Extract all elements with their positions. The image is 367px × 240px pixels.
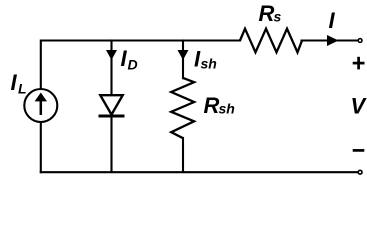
svg-text:sh: sh bbox=[219, 101, 235, 117]
wire diode branch upper bbox=[110, 41, 112, 96]
resistor R_sh zigzag bbox=[171, 78, 194, 138]
wire bottom rail bbox=[41, 171, 358, 173]
wire left rail lower bbox=[40, 122, 42, 172]
svg-text:R: R bbox=[259, 1, 275, 26]
diode D cathode bar bbox=[99, 115, 125, 118]
current source arrowhead bbox=[35, 93, 47, 102]
diode D triangle bbox=[100, 95, 122, 114]
current arrow I_sh bbox=[178, 50, 189, 60]
svg-text:I: I bbox=[329, 8, 336, 33]
wire left rail upper + top rail to R_s bbox=[41, 41, 240, 90]
resistor R_s zigzag bbox=[240, 29, 302, 53]
svg-text:sh: sh bbox=[201, 55, 217, 71]
svg-text:L: L bbox=[18, 81, 27, 97]
wire top-right to terminal bbox=[302, 39, 359, 41]
wire diode branch lower bbox=[110, 116, 112, 172]
svg-text:s: s bbox=[274, 9, 282, 25]
current arrow I_D bbox=[106, 50, 117, 60]
svg-text:R: R bbox=[204, 93, 220, 118]
terminal bottom-right bbox=[358, 170, 362, 174]
svg-text:I: I bbox=[121, 46, 128, 71]
plus sign bbox=[353, 57, 365, 70]
wire shunt branch upper bbox=[182, 41, 184, 79]
svg-text:V: V bbox=[351, 93, 367, 118]
terminal top-right bbox=[358, 39, 362, 43]
current source arrow shaft bbox=[40, 100, 43, 115]
current source I_L circle bbox=[24, 89, 57, 122]
minus sign bbox=[353, 149, 365, 152]
wire shunt branch lower bbox=[182, 138, 184, 172]
svg-text:D: D bbox=[128, 57, 138, 73]
current arrow I bbox=[327, 35, 339, 46]
svg-text:I: I bbox=[11, 70, 18, 95]
